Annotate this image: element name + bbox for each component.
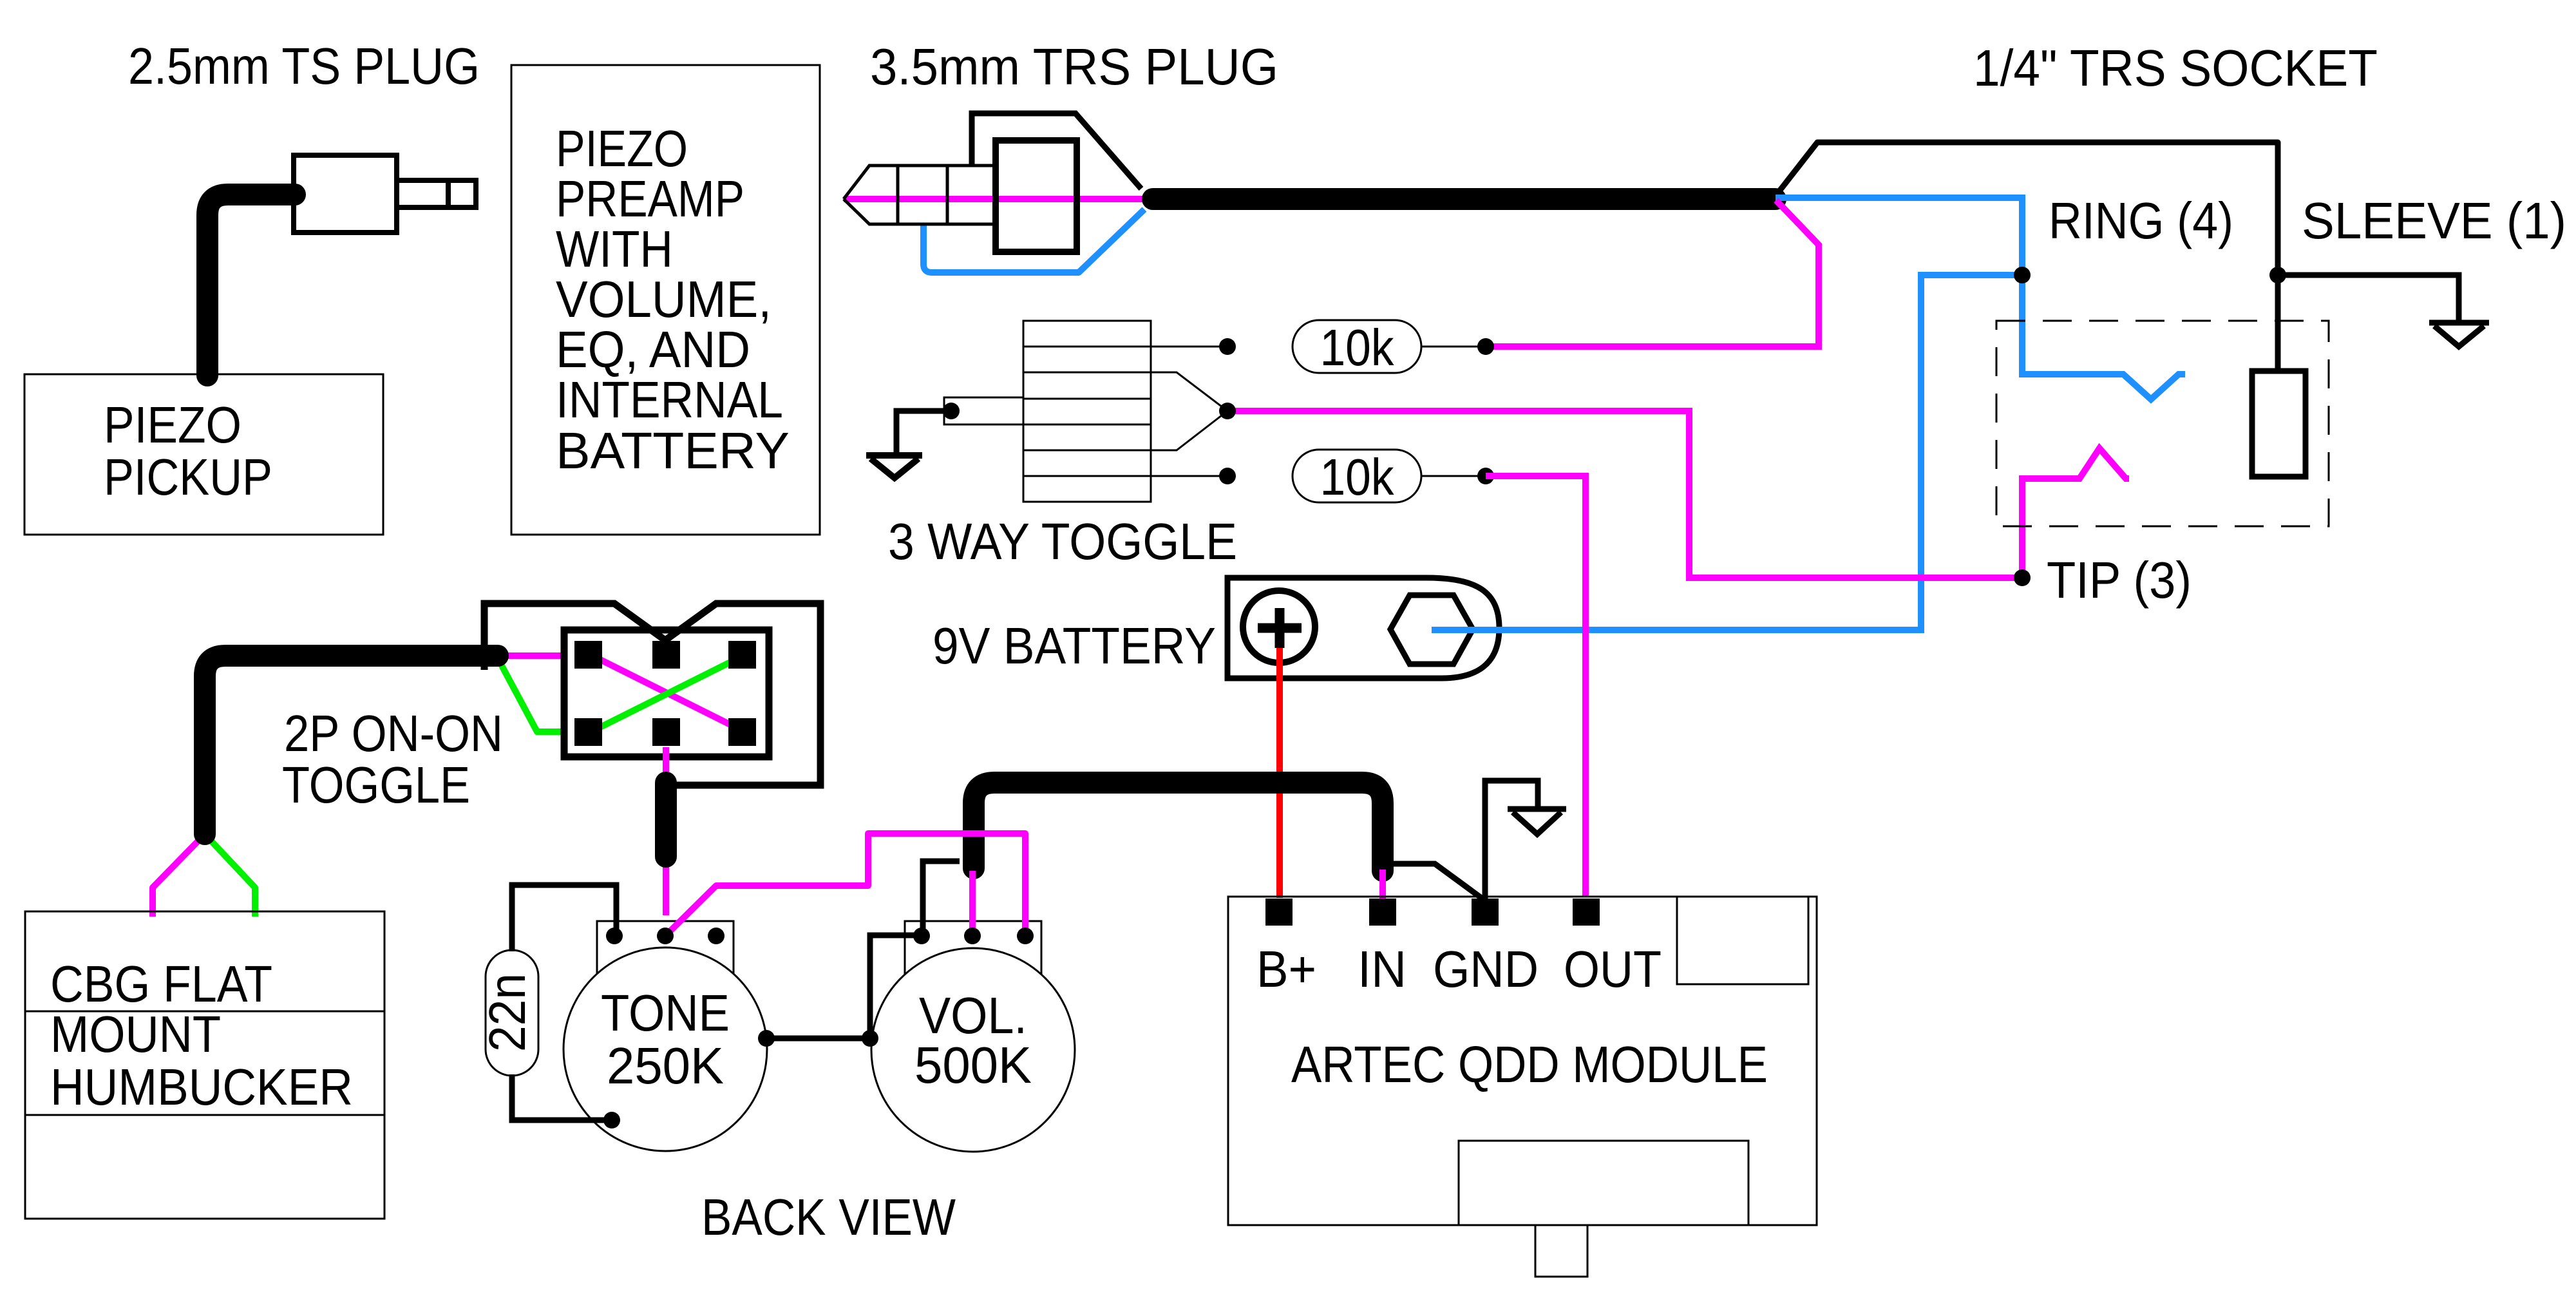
svg-text:PREAMP: PREAMP [556,170,744,227]
svg-text:INTERNAL: INTERNAL [556,371,783,428]
svg-text:RING (4): RING (4) [2049,192,2233,249]
svg-text:WITH: WITH [556,220,673,278]
svg-text:B+: B+ [1256,940,1316,998]
svg-text:2.5mm TS PLUG: 2.5mm TS PLUG [128,37,480,95]
svg-text:GND: GND [1433,940,1539,998]
svg-text:TONE: TONE [601,984,730,1042]
svg-text:MOUNT: MOUNT [50,1005,221,1063]
svg-text:VOL.: VOL. [919,987,1027,1044]
svg-text:2P ON-ON: 2P ON-ON [284,705,503,762]
svg-text:10k: 10k [1320,448,1395,506]
svg-text:PIEZO: PIEZO [104,396,241,453]
svg-text:SLEEVE (1): SLEEVE (1) [2302,192,2566,249]
svg-text:TOGGLE: TOGGLE [282,756,470,814]
svg-text:3.5mm TRS PLUG: 3.5mm TRS PLUG [870,38,1278,95]
svg-text:HUMBUCKER: HUMBUCKER [50,1058,353,1116]
svg-text:PICKUP: PICKUP [104,448,272,506]
svg-text:VOLUME,: VOLUME, [556,271,772,328]
svg-text:500K: 500K [914,1036,1032,1094]
svg-text:10k: 10k [1320,319,1395,376]
svg-text:EQ, AND: EQ, AND [556,321,750,378]
svg-text:OUT: OUT [1564,940,1662,998]
svg-text:250K: 250K [607,1037,724,1094]
svg-text:3 WAY TOGGLE: 3 WAY TOGGLE [888,513,1237,570]
svg-text:PIEZO: PIEZO [556,120,688,177]
svg-text:22n: 22n [478,973,536,1052]
svg-text:CBG FLAT: CBG FLAT [50,955,272,1013]
svg-text:TIP (3): TIP (3) [2047,551,2192,609]
svg-text:9V BATTERY: 9V BATTERY [933,617,1216,674]
svg-text:1/4" TRS SOCKET: 1/4" TRS SOCKET [1973,39,2378,97]
svg-text:IN: IN [1358,940,1406,998]
svg-text:BATTERY: BATTERY [556,422,790,479]
svg-text:BACK VIEW: BACK VIEW [701,1188,956,1246]
svg-text:ARTEC QDD MODULE: ARTEC QDD MODULE [1291,1036,1768,1093]
